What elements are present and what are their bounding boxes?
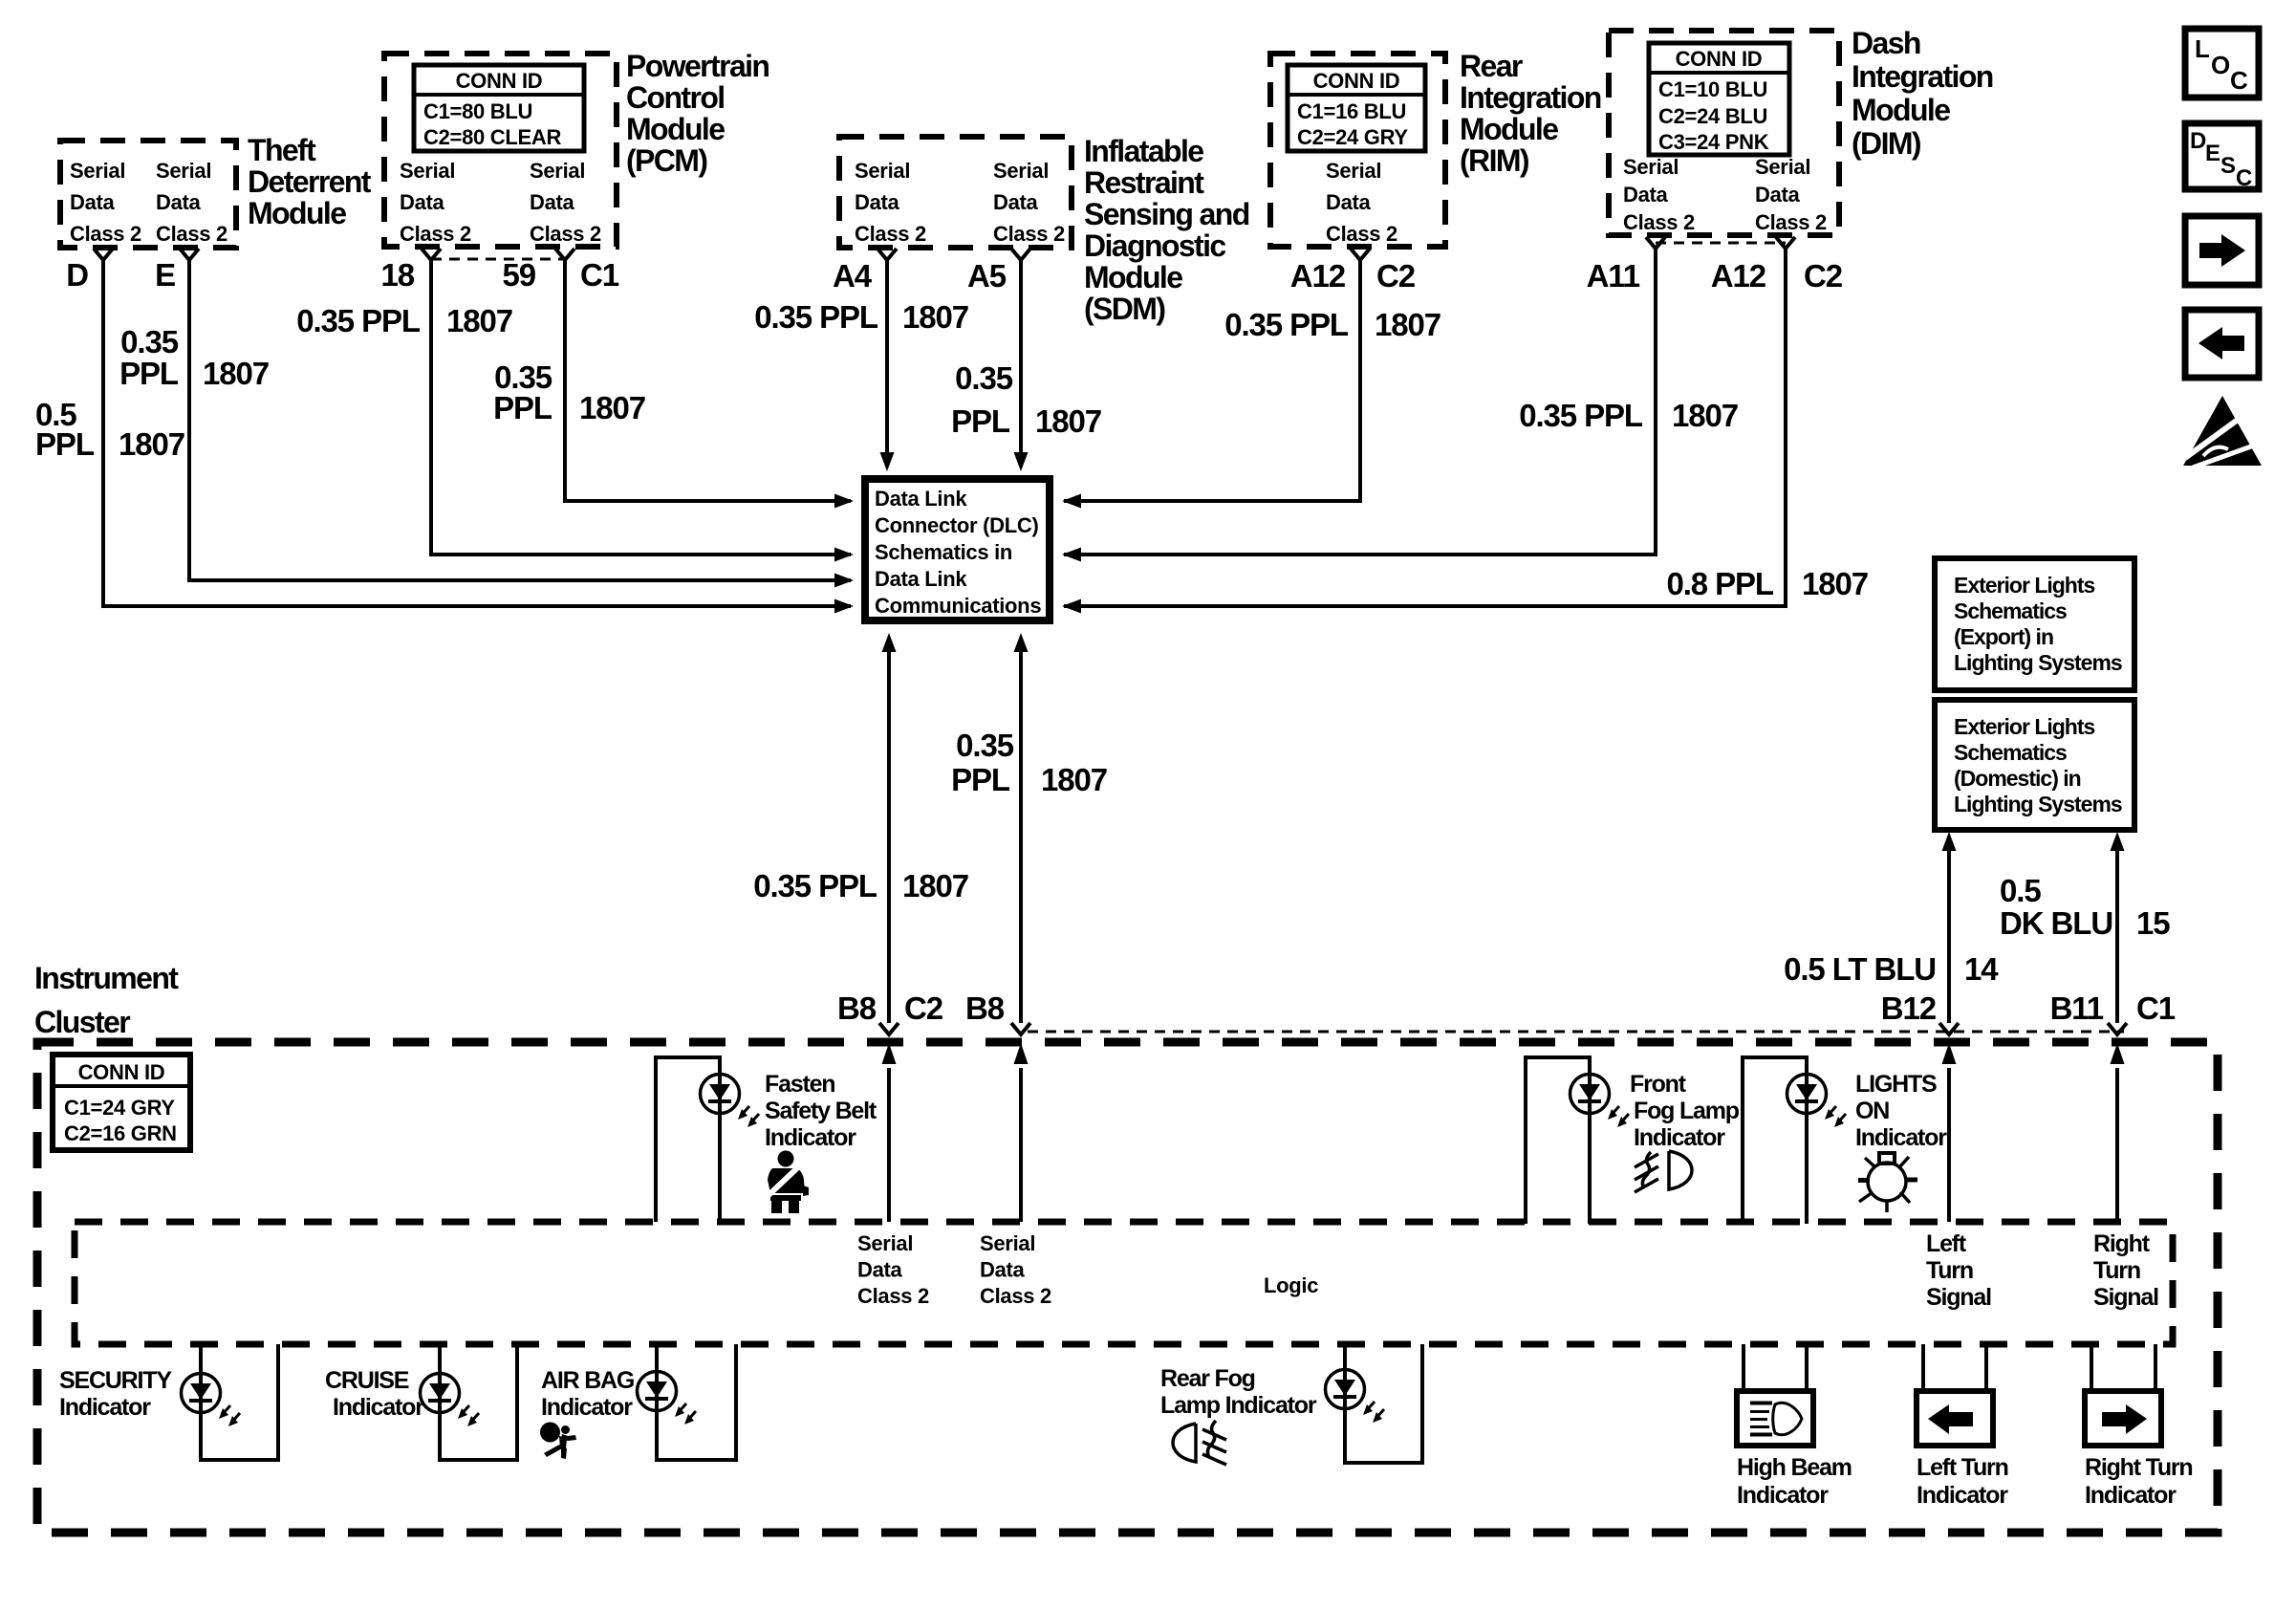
indicator: High Beam legs <box>1744 1344 1807 1391</box>
svg-text:FrontFog LampIndicator: FrontFog LampIndicator <box>1630 1071 1740 1151</box>
module: Theft Deterrent Module (dashed box) <box>60 141 236 248</box>
wire serial data class 2 (left) inside cluster with up arrow <box>887 1068 891 1222</box>
svg-text:High BeamIndicator: High BeamIndicator <box>1737 1454 1852 1509</box>
svg-text:A12: A12 <box>1711 258 1766 294</box>
svg-text:Left TurnIndicator: Left TurnIndicator <box>1917 1454 2008 1509</box>
DIM connector face dashed line <box>1656 242 1786 245</box>
svg-text:0.35: 0.35 <box>955 360 1013 396</box>
LED: front fog lamp indicator <box>1570 1075 1610 1114</box>
RIM CONN ID table <box>1288 65 1425 151</box>
arrowhead B8 wire into DLC bottom <box>1014 633 1029 652</box>
LED: cruise indicator <box>421 1374 460 1413</box>
svg-text:SerialDataClass 2: SerialDataClass 2 <box>156 159 227 246</box>
svg-text:A11: A11 <box>1587 258 1640 294</box>
svg-text:CONN ID: CONN ID <box>1313 69 1400 93</box>
icon: rear fog lamp <box>1173 1421 1226 1465</box>
wire A11: 0.35 PPL 1807 to DLC right side <box>1064 249 1656 555</box>
svg-text:C1=10 BLU: C1=10 BLU <box>1658 77 1767 101</box>
svg-text:59: 59 <box>502 257 535 293</box>
svg-text:TheftDeterrentModule: TheftDeterrentModule <box>248 133 372 230</box>
svg-text:PPL: PPL <box>951 403 1010 439</box>
pin E connector Y <box>180 249 199 260</box>
connector face dashed line along cluster top <box>1028 1031 2124 1033</box>
arrowhead B12 wire into Exterior Lights box <box>1942 832 1957 851</box>
svg-text:0.5: 0.5 <box>2000 873 2041 908</box>
wire left turn signal inside cluster with up arrow <box>1947 1068 1951 1222</box>
arrowhead A11 wire into DLC <box>1062 548 1081 562</box>
icon: DESC sidebar button <box>2185 123 2259 191</box>
pin 18 connector Y <box>422 249 441 260</box>
svg-text:SerialDataClass 2: SerialDataClass 2 <box>1755 155 1827 234</box>
svg-text:0.35: 0.35 <box>120 324 179 359</box>
arrowhead wire D into DLC <box>834 599 854 614</box>
svg-text:O: O <box>2211 51 2230 79</box>
svg-text:AIR BAGIndicator: AIR BAGIndicator <box>541 1367 634 1421</box>
svg-text:1807: 1807 <box>1041 762 1107 797</box>
svg-text:SerialDataClass 2: SerialDataClass 2 <box>857 1231 929 1308</box>
svg-text:RearIntegrationModule(RIM): RearIntegrationModule(RIM) <box>1460 49 1601 178</box>
svg-text:A5: A5 <box>967 258 1007 294</box>
indicator: SECURITY loop <box>201 1344 278 1460</box>
arrowhead wire A4 into DLC top <box>880 452 895 471</box>
node: cluster logic block (inner dashed box) <box>75 1222 2173 1344</box>
svg-text:B8: B8 <box>965 990 1005 1026</box>
svg-text:SerialDataClass 2: SerialDataClass 2 <box>855 159 926 246</box>
LED: security indicator <box>182 1374 221 1413</box>
svg-text:C1=80 BLU: C1=80 BLU <box>423 99 532 123</box>
svg-text:SerialDataClass 2: SerialDataClass 2 <box>1623 155 1695 234</box>
svg-text:1807: 1807 <box>446 303 512 338</box>
svg-text:0.35 PPL: 0.35 PPL <box>754 299 878 335</box>
pin A5 connector Y <box>1011 249 1030 260</box>
svg-text:InflatableRestraintSensing and: InflatableRestraintSensing andDiagnostic… <box>1084 134 1249 326</box>
svg-text:C: C <box>2236 165 2252 191</box>
svg-text:C: C <box>2230 66 2248 95</box>
module: Dash Integration Module DIM (dashed box) <box>1609 31 1839 235</box>
arrowhead DIM A12 wire into DLC <box>1062 599 1081 614</box>
arrowhead wire 59 into DLC <box>834 494 854 509</box>
pin B8/C2 connector Y at cluster <box>879 1023 899 1034</box>
svg-text:1807: 1807 <box>1672 398 1738 433</box>
module: Inflatable Restraint Sensing and Diagnostic Module SDM (dashed box) <box>839 137 1072 248</box>
node: Left Turn Indicator box <box>1917 1391 1993 1446</box>
svg-text:B12: B12 <box>1881 990 1937 1026</box>
svg-text:CRUISEIndicator: CRUISEIndicator <box>325 1367 424 1421</box>
svg-text:0.35 PPL: 0.35 PPL <box>1519 398 1643 433</box>
indicator: LIGHTS ON loop <box>1743 1057 1807 1224</box>
pin 59 connector Y <box>555 249 574 260</box>
wire right turn signal inside cluster with up arrow <box>2115 1068 2119 1222</box>
pin A12 (DIM) connector Y <box>1776 237 1795 249</box>
pin B12 connector Y at cluster <box>1939 1023 1959 1034</box>
icon: ESD sensitive device symbol <box>2183 396 2262 468</box>
svg-text:RightTurnSignal: RightTurnSignal <box>2093 1230 2158 1311</box>
svg-text:C3=24 PNK: C3=24 PNK <box>1658 130 1769 154</box>
icon: lights on bulb <box>1858 1153 1917 1212</box>
svg-text:D: D <box>66 257 88 293</box>
Instrument Cluster CONN ID table <box>53 1055 190 1150</box>
wire serial data class 2 (right) inside cluster with up arrow <box>1019 1068 1023 1222</box>
svg-text:DashIntegrationModule(DIM): DashIntegrationModule(DIM) <box>1852 26 1993 161</box>
arrowhead B8/C2 wire into DLC bottom <box>882 633 897 652</box>
LED: rear fog lamp indicator <box>1326 1370 1365 1409</box>
svg-text:0.35 PPL: 0.35 PPL <box>296 303 421 338</box>
indicator: Rear Fog Lamp loop <box>1345 1344 1422 1463</box>
svg-text:Right TurnIndicator: Right TurnIndicator <box>2085 1454 2193 1509</box>
svg-text:E: E <box>155 257 175 293</box>
svg-text:S: S <box>2220 153 2236 179</box>
icon: air bag <box>540 1423 576 1460</box>
svg-text:FastenSafety BeltIndicator: FastenSafety BeltIndicator <box>765 1071 877 1151</box>
svg-text:DK BLU: DK BLU <box>2000 905 2112 941</box>
node: Right Turn Indicator box <box>2085 1391 2161 1446</box>
svg-text:0.35: 0.35 <box>956 728 1014 763</box>
pin B8 connector Y at cluster <box>1011 1023 1030 1034</box>
LED: lights on indicator <box>1787 1075 1827 1114</box>
svg-text:1807: 1807 <box>119 426 184 462</box>
svg-text:1807: 1807 <box>1375 307 1440 342</box>
svg-text:1807: 1807 <box>1802 566 1868 601</box>
indicator: Front Fog Lamp loop <box>1526 1057 1590 1224</box>
wire DIM A12: 0.8 PPL 1807 to DLC right side <box>1064 249 1786 606</box>
svg-text:0.35 PPL: 0.35 PPL <box>1224 307 1349 342</box>
icon: LOC sidebar button <box>2185 29 2259 98</box>
wire B8: 0.35 PPL 1807 from instrument cluster up into DLC bottom <box>1019 651 1023 1023</box>
indicator: AIR BAG loop <box>657 1344 736 1460</box>
svg-text:C2=24 BLU: C2=24 BLU <box>1658 104 1767 128</box>
svg-text:14: 14 <box>1964 951 1999 987</box>
icon: high beam headlamp <box>1750 1403 1802 1434</box>
svg-text:1807: 1807 <box>203 356 269 391</box>
svg-text:C1: C1 <box>580 257 619 293</box>
wire A5: 0.35 PPL 1807 down into DLC top <box>1019 260 1023 453</box>
wire E: 0.35 PPL 1807 from pin E to DLC <box>189 260 851 580</box>
module: Instrument Cluster (outer dashed box) <box>37 1042 2218 1533</box>
svg-text:PPL: PPL <box>35 426 95 462</box>
svg-text:C2: C2 <box>1804 258 1843 294</box>
svg-text:0.8 PPL: 0.8 PPL <box>1666 566 1773 601</box>
svg-text:CONN ID: CONN ID <box>78 1060 165 1084</box>
icon: front fog lamp <box>1635 1151 1692 1192</box>
svg-text:1807: 1807 <box>579 390 645 425</box>
arrowhead B11 wire into Exterior Lights box <box>2111 832 2125 851</box>
svg-text:SerialDataClass 2: SerialDataClass 2 <box>980 1231 1051 1308</box>
arrowhead wire A5 into DLC top <box>1014 452 1029 471</box>
wire 18: 0.35 PPL 1807 to DLC <box>431 260 851 555</box>
svg-text:1807: 1807 <box>902 299 968 335</box>
node: Exterior Lights Schematics (Domestic) reference box <box>1935 700 2134 830</box>
svg-text:C2=80 CLEAR: C2=80 CLEAR <box>423 125 561 149</box>
svg-text:18: 18 <box>380 257 414 293</box>
module: Powertrain Control Module PCM (dashed box) <box>384 54 617 247</box>
svg-text:SerialDataClass 2: SerialDataClass 2 <box>70 159 141 246</box>
svg-text:E: E <box>2205 141 2220 166</box>
svg-text:SerialDataClass 2: SerialDataClass 2 <box>400 159 471 246</box>
svg-text:SerialDataClass 2: SerialDataClass 2 <box>1326 159 1397 246</box>
LED: air bag indicator <box>638 1372 677 1411</box>
arrowhead wire E into DLC <box>834 574 854 588</box>
svg-text:CONN ID: CONN ID <box>1676 47 1763 71</box>
svg-text:15: 15 <box>2136 905 2170 941</box>
svg-text:B8: B8 <box>837 990 877 1026</box>
svg-text:CONN ID: CONN ID <box>456 69 543 93</box>
arrowhead wire 18 into DLC <box>834 548 854 562</box>
module: Rear Integration Module RIM (dashed box) <box>1270 54 1445 247</box>
svg-text:C1: C1 <box>2136 990 2176 1026</box>
PCM connector face dashed line <box>431 258 565 261</box>
svg-text:SECURITYIndicator: SECURITYIndicator <box>59 1367 172 1421</box>
pin A12 (RIM) connector Y <box>1351 249 1370 260</box>
svg-text:1807: 1807 <box>1035 403 1101 439</box>
svg-text:PowertrainControlModule(PCM): PowertrainControlModule(PCM) <box>626 49 769 178</box>
svg-text:LeftTurnSignal: LeftTurnSignal <box>1926 1230 1991 1311</box>
pin A4 connector Y <box>877 249 897 260</box>
icon: seat belt person <box>767 1151 809 1214</box>
indicator: CRUISE loop <box>440 1344 517 1460</box>
svg-text:0.35 PPL: 0.35 PPL <box>753 868 877 903</box>
svg-text:A12: A12 <box>1290 258 1346 294</box>
node: High Beam Indicator box <box>1737 1391 1813 1446</box>
svg-text:InstrumentCluster: InstrumentCluster <box>34 961 179 1039</box>
svg-text:Rear FogLamp Indicator: Rear FogLamp Indicator <box>1160 1365 1317 1419</box>
svg-text:C2: C2 <box>904 990 943 1026</box>
wire B8/C2: 0.35 PPL 1807 from instrument cluster up into DLC bottom <box>887 651 891 1023</box>
icon: right arrow sidebar button <box>2185 216 2259 285</box>
node: Exterior Lights Schematics (Export) reference box <box>1935 558 2134 690</box>
svg-text:A4: A4 <box>833 258 873 294</box>
svg-text:LIGHTSONIndicator: LIGHTSONIndicator <box>1855 1071 1947 1151</box>
svg-text:D: D <box>2190 128 2206 154</box>
LED: fasten safety belt indicator <box>701 1075 740 1114</box>
svg-text:C2=16 GRN: C2=16 GRN <box>64 1121 177 1145</box>
svg-text:PPL: PPL <box>493 390 552 425</box>
icon: left arrow sidebar button <box>2185 310 2259 378</box>
svg-text:C2: C2 <box>1376 258 1416 294</box>
svg-text:PPL: PPL <box>119 356 179 391</box>
svg-text:SerialDataClass 2: SerialDataClass 2 <box>993 159 1065 246</box>
node: Data Link Connector DLC reference box <box>865 479 1050 620</box>
svg-text:0.5 LT BLU: 0.5 LT BLU <box>1784 951 1936 987</box>
indicator: Left Turn legs <box>1923 1344 1986 1391</box>
pin B11 connector Y at cluster <box>2108 1023 2127 1034</box>
wire D: 0.5 PPL 1807 from pin D to DLC <box>103 260 851 606</box>
PCM CONN ID table <box>414 65 584 151</box>
svg-text:C2=24 GRY: C2=24 GRY <box>1297 125 1408 149</box>
svg-text:L: L <box>2195 34 2210 63</box>
svg-text:C1=24 GRY: C1=24 GRY <box>64 1096 175 1120</box>
wire 59: 0.35 PPL 1807 to DLC <box>565 260 851 501</box>
wire B12: 0.5 LT BLU 14 from cluster up to Exterior Lights box <box>1947 849 1951 1023</box>
pin D connector Y <box>94 249 113 260</box>
wire B11: 0.5 DK BLU 15 from cluster up to Exterior Lights box <box>2115 849 2119 1023</box>
svg-text:PPL: PPL <box>951 762 1010 797</box>
pin A11 connector Y <box>1646 237 1665 249</box>
svg-text:SerialDataClass 2: SerialDataClass 2 <box>530 159 601 246</box>
arrowhead RIM wire into DLC <box>1062 494 1081 509</box>
indicator: Right Turn legs <box>2091 1344 2155 1391</box>
wire RIM A12: 0.35 PPL 1807 to DLC right side <box>1064 260 1360 501</box>
svg-text:Logic: Logic <box>1264 1273 1318 1297</box>
svg-text:1807: 1807 <box>902 868 968 903</box>
svg-text:C1=16 BLU: C1=16 BLU <box>1297 99 1406 123</box>
DIM CONN ID table <box>1649 43 1789 155</box>
wire A4: 0.35 PPL 1807 down into DLC top <box>885 260 889 453</box>
svg-text:B11: B11 <box>2050 990 2104 1026</box>
indicator: Fasten Safety Belt loop <box>656 1057 720 1222</box>
